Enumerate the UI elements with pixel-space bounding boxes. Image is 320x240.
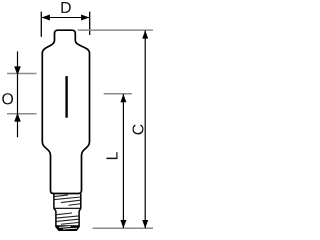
O top tick (gray) — [7, 73, 37, 75]
dimension O: lower line + up arrowhead — [14, 113, 21, 122]
dimension D: right arrowhead — [81, 15, 89, 21]
dimension D: arrow line — [42, 17, 90, 19]
dimension D: left tick — [40, 12, 42, 37]
dimension D: right tick — [89, 12, 91, 35]
base thread lines upper — [54, 195, 68, 197]
dimension D: left arrowhead — [42, 15, 50, 21]
svg-text:D: D — [60, 0, 71, 17]
svg-text:L: L — [105, 151, 122, 160]
dimension C: vertical line — [144, 30, 146, 228]
svg-text:O: O — [1, 91, 13, 108]
lamp envelope outline — [42, 30, 89, 193]
dimension L: bottom arrowhead — [120, 220, 126, 228]
bottom base line (gray) — [93, 227, 154, 229]
dimension L: vertical line — [122, 94, 124, 228]
arc tube line — [65, 76, 67, 118]
dimension O: upper line + down arrowhead — [17, 51, 19, 137]
lamp base (cap) outline — [54, 194, 81, 230]
dimension L: top arrowhead — [120, 94, 126, 102]
dimension C: top arrowhead — [142, 30, 148, 38]
svg-text:C: C — [130, 124, 147, 135]
base bottom contact (solid) — [56, 225, 79, 230]
base thread lines lower — [56, 213, 72, 215]
dimension C: bottom arrowhead — [142, 220, 148, 228]
top extension line (gray) — [78, 29, 153, 31]
O bottom tick (gray) — [7, 113, 37, 115]
light-centre tick (gray) — [104, 93, 132, 95]
base section divider — [54, 207, 81, 209]
